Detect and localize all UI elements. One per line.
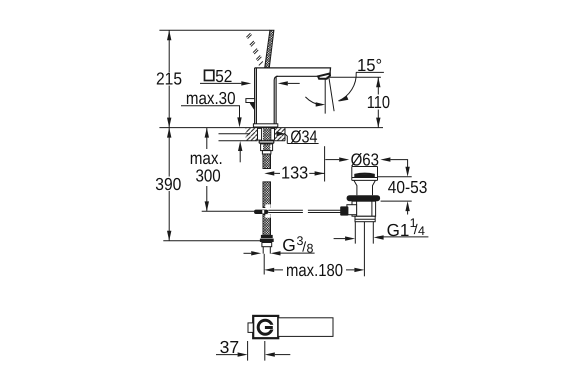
left arc arrow <box>305 97 321 105</box>
dim 52 arrows <box>200 82 241 84</box>
countertop surface line <box>159 127 383 129</box>
svg-text:G: G <box>282 235 296 255</box>
svg-text:Ø63: Ø63 <box>351 150 379 170</box>
square 52 symbol <box>205 70 214 80</box>
svg-text:52: 52 <box>215 66 232 86</box>
ball joint housing <box>347 205 357 215</box>
spout top + tip <box>255 68 331 74</box>
water stream lines <box>325 78 334 113</box>
counter hatch right block <box>275 128 286 141</box>
counter hatch left block <box>246 128 258 141</box>
svg-text:133: 133 <box>281 163 308 183</box>
dimension line max.300 <box>206 128 208 212</box>
lever (hatched) <box>265 30 274 68</box>
G3/8 dimension <box>244 252 252 254</box>
o-ring <box>347 195 381 201</box>
GROHE logo <box>258 320 272 334</box>
hose segment 1 <box>263 154 271 169</box>
faucet body <box>255 68 278 124</box>
15 deg underline <box>356 71 384 73</box>
bottom view: lever arm <box>278 318 333 337</box>
bottom view: handle square <box>253 316 278 338</box>
max.30 leader and arrows <box>181 106 240 118</box>
svg-text:G1: G1 <box>387 220 410 240</box>
left knob of drain (knurled) <box>340 206 348 215</box>
40-53 extension lines <box>378 177 412 201</box>
lever phantom hatch clusters <box>246 33 262 65</box>
svg-text:max.180: max.180 <box>286 260 343 280</box>
bottom flange <box>355 216 375 221</box>
110 dimension <box>327 76 381 78</box>
big arc from 15 deg <box>338 73 356 101</box>
funnel taper + neck <box>354 180 376 195</box>
G1 1/4 extension lines <box>355 222 373 244</box>
mounting nut <box>261 144 273 151</box>
svg-text:40-53: 40-53 <box>388 177 428 197</box>
washer below counter <box>259 140 275 144</box>
top reference line (lever top level) <box>159 29 270 31</box>
clamp at hose <box>254 210 268 214</box>
counter underside lines (left) <box>219 134 258 141</box>
390 bottom reference line <box>163 240 261 242</box>
O34 leader <box>277 131 285 136</box>
svg-text:8: 8 <box>307 241 314 255</box>
svg-text:max.30: max.30 <box>186 88 236 108</box>
bottom view: left tab <box>248 323 253 333</box>
arrowheads 390 <box>167 128 171 241</box>
hose segment 2 <box>263 182 271 208</box>
37 dimension <box>216 354 238 356</box>
svg-text:300: 300 <box>196 166 221 186</box>
small tube below nut <box>262 151 271 154</box>
arrowheads 215 <box>167 30 171 127</box>
horizontal pop-up rod: thin left part <box>202 210 254 212</box>
valve body <box>352 201 376 216</box>
hose segment 3 <box>263 215 271 236</box>
base plate <box>253 124 277 127</box>
max.180 dimension <box>263 254 265 275</box>
svg-text:15°: 15° <box>357 55 382 75</box>
pull-rod knob <box>246 99 255 103</box>
svg-text:37: 37 <box>220 337 240 357</box>
svg-text:Ø34: Ø34 <box>290 127 317 147</box>
svg-text:110: 110 <box>367 92 390 112</box>
dimension line 215/390 <box>168 30 170 240</box>
hose step notches at clamp <box>265 204 270 209</box>
G3/8 tube end <box>263 247 270 254</box>
svg-text:4: 4 <box>418 224 425 238</box>
svg-text:390: 390 <box>155 174 181 194</box>
Ø63 dimension arrows <box>325 159 339 161</box>
133 dimension <box>324 146 326 181</box>
aerator <box>318 74 330 79</box>
rod double line to drain <box>268 210 341 212</box>
G1 1/4 leader <box>377 236 428 238</box>
flange lip band <box>352 178 378 181</box>
svg-text:215: 215 <box>156 68 182 88</box>
plug cap (dark) <box>354 174 375 177</box>
countertop shank assembly <box>263 128 270 141</box>
drain valve: flange rim <box>352 167 378 181</box>
drain centerline <box>363 222 365 277</box>
spout underside <box>276 75 318 77</box>
hose end nut stack <box>261 235 273 238</box>
